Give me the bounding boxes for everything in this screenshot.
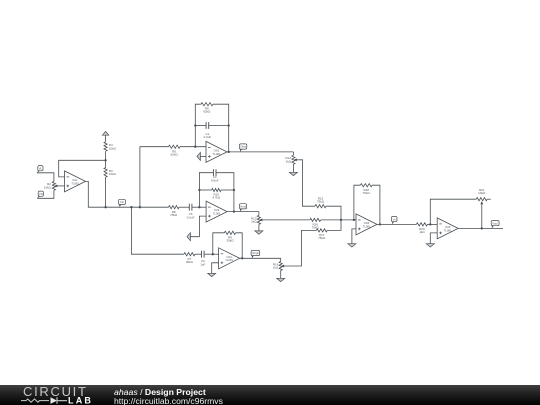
wire R14 wiper to R17	[286, 230, 317, 266]
junction R10 right	[233, 189, 235, 191]
wire R16 to OA5 -	[321, 219, 356, 221]
resistor R9 30k	[224, 231, 235, 234]
resistor R8 75k	[169, 206, 180, 209]
junction R10 left	[198, 189, 200, 191]
wire junction to R3	[105, 160, 107, 167]
wire feedback left stage B	[199, 173, 213, 208]
svg-text:75kΩ: 75kΩ	[318, 236, 326, 240]
node flag Vin	[119, 199, 126, 207]
svg-text:4.7kΩ: 4.7kΩ	[212, 196, 221, 200]
svg-text:1kΩ: 1kΩ	[273, 266, 279, 270]
ground OA4	[208, 273, 216, 276]
svg-text:75kΩ: 75kΩ	[363, 191, 371, 195]
junction feedback tap	[353, 219, 355, 221]
junction R3 on bus	[104, 206, 106, 208]
wire OA1 - feedback loop	[59, 160, 106, 177]
svg-text:1kΩ: 1kΩ	[251, 220, 257, 224]
resistor R15 75k	[315, 205, 326, 208]
svg-text:0.6uF: 0.6uF	[187, 215, 195, 219]
resistor R20 1k	[416, 223, 427, 226]
wire OA1 out to bus	[86, 181, 169, 207]
svg-text:TL081: TL081	[363, 224, 371, 228]
wire R17 to sum node	[327, 220, 341, 231]
junction OA3 out	[233, 210, 235, 212]
wire OA5 + to ground	[352, 229, 356, 244]
capacitor C2 1uF	[202, 251, 205, 258]
svg-text:10kΩ: 10kΩ	[109, 146, 117, 150]
capacitor C5 0.6uF	[189, 204, 192, 211]
junction OA4 input node	[212, 253, 214, 255]
node flag VL	[37, 166, 43, 173]
junction OA6 out feedback	[481, 227, 483, 229]
ground R12	[289, 172, 297, 175]
wire R4 to junction	[105, 151, 107, 160]
wire R7 to C2	[195, 253, 202, 255]
supply V+ arrow	[102, 131, 108, 135]
wire R15 to sum node	[326, 206, 341, 220]
node flag Vmid	[239, 204, 246, 212]
svg-text:Vhigh: Vhigh	[252, 251, 260, 255]
svg-text:62kΩ: 62kΩ	[171, 153, 179, 157]
wire VL to R2 top	[37, 173, 54, 182]
wire R14 to ground	[280, 271, 282, 279]
wire OA4 + to ground	[212, 263, 219, 274]
wire to R14 top	[280, 258, 282, 261]
wire C4 to OA3 out	[216, 173, 234, 212]
op-amp OA6 output	[437, 218, 458, 239]
wire R20 to OA6 -	[428, 223, 438, 225]
resistor R3 10k	[104, 168, 107, 178]
ground OA2	[197, 152, 200, 160]
op-amp OA5 summing	[356, 214, 377, 235]
junction R4/R3/OA1-	[104, 159, 106, 161]
svg-text:TL081: TL081	[71, 181, 79, 185]
wire OA6 output	[458, 227, 503, 229]
junction OA5 out	[379, 223, 381, 225]
wire R3 to bus	[105, 177, 107, 207]
svg-text:0.2uF: 0.2uF	[204, 135, 212, 139]
wire C2 to OA4 -	[204, 253, 219, 255]
wire OA4 output	[240, 257, 281, 259]
wire OA3 output	[227, 211, 259, 213]
capacitor C4 0.8uF	[213, 169, 216, 176]
resistor R4 10k	[104, 142, 107, 151]
wire supply to R4	[105, 135, 107, 142]
junction OA4 out	[241, 257, 243, 259]
wire bus down to R7	[131, 207, 184, 254]
wire R18 to OA5 out	[372, 185, 380, 224]
junction OA6 input node	[429, 223, 431, 225]
svg-text:Vout: Vout	[492, 221, 498, 225]
wire R9 to OA4 out	[236, 233, 243, 258]
wire R12 wiper to R15	[298, 160, 315, 206]
wire R13 wiper to R16	[264, 219, 310, 221]
node flag Vout	[491, 221, 499, 229]
wire OA3 + to ground	[190, 216, 206, 237]
resistor R10 4.7k	[212, 188, 221, 191]
resistor R16 75k	[310, 218, 321, 221]
svg-text:VL: VL	[39, 166, 43, 170]
wire OA2 + to ground	[200, 155, 206, 157]
junction OA2 out	[228, 151, 230, 153]
svg-text:62kΩ: 62kΩ	[203, 110, 211, 114]
op-amp OA2 low-pass	[206, 141, 227, 162]
potentiometer R12 1k	[292, 155, 295, 164]
svg-text:30kΩ: 30kΩ	[186, 260, 194, 264]
potentiometer R2 10k	[52, 182, 55, 191]
wire VR to R2 bottom	[37, 190, 54, 198]
wire R2 wiper to OA1 +	[59, 185, 65, 187]
op-amp OA3 band-pass	[206, 201, 227, 222]
wire to R10	[199, 189, 211, 191]
junction OA3 input node	[198, 206, 200, 208]
wire R13 to ground	[258, 224, 260, 231]
junction bus to low branch	[130, 206, 132, 208]
CircuitLab logo	[0, 385, 112, 405]
wire C1 right lead	[209, 125, 229, 127]
svg-text:TL081: TL081	[225, 258, 233, 262]
svg-text:TL081: TL081	[444, 228, 452, 232]
wire C5 to OA3 -	[192, 206, 206, 208]
wire to R13 top	[258, 212, 260, 216]
junction summing node	[340, 219, 342, 221]
svg-text:LAB: LAB	[68, 395, 93, 405]
node flag VR	[37, 191, 43, 198]
wire feedback left up	[195, 104, 201, 147]
wire OA2 output	[227, 151, 293, 153]
wire to R12 top	[292, 152, 294, 155]
resistor R5 62k	[169, 145, 181, 148]
capacitor C1 0.2uF	[206, 122, 209, 129]
svg-text:1uF: 1uF	[200, 262, 205, 266]
junction C1 right	[228, 124, 230, 126]
wire R6 to OA2 out	[213, 104, 229, 152]
op-amp OA4 high-pass	[219, 248, 240, 269]
wire bus up to R5	[140, 147, 169, 208]
svg-text:Vlow: Vlow	[240, 145, 247, 149]
svg-text:75kΩ: 75kΩ	[170, 213, 178, 217]
ground OA5	[348, 244, 356, 247]
svg-text:10kΩ: 10kΩ	[44, 185, 52, 189]
wire R21 right stub	[487, 198, 491, 200]
wire R5 to OA2 -	[180, 146, 206, 148]
svg-text:75kΩ: 75kΩ	[312, 226, 320, 230]
svg-text:1kΩ: 1kΩ	[286, 159, 292, 163]
svg-text:Vin: Vin	[120, 200, 124, 204]
svg-text:TL081: TL081	[213, 152, 221, 156]
ground OA6	[426, 244, 434, 247]
wire OA6 + to ground	[430, 233, 437, 244]
svg-text:10kΩ: 10kΩ	[109, 172, 117, 176]
svg-text:Vmid: Vmid	[240, 205, 247, 209]
ground OA3	[187, 233, 190, 241]
wire OA5 output to R20	[377, 223, 416, 225]
wire feedback up to R18	[354, 185, 361, 220]
wire R12 to ground	[292, 164, 294, 172]
svg-text:0.8uF: 0.8uF	[211, 178, 219, 182]
svg-text:TL081: TL081	[213, 212, 221, 216]
junction bus to high branch	[139, 206, 141, 208]
ground R13	[255, 231, 263, 234]
svg-text:10kΩ: 10kΩ	[478, 191, 486, 195]
wire R10 right	[221, 189, 234, 191]
wire feedback left stage C	[213, 233, 225, 254]
potentiometer R13 1k	[257, 215, 260, 224]
resistor R18 75k	[360, 184, 372, 187]
svg-text:30kΩ: 30kΩ	[226, 239, 234, 243]
svg-text:75kΩ: 75kΩ	[317, 200, 325, 204]
wire R8 to C5	[179, 206, 189, 208]
junction C1 left	[194, 124, 196, 126]
node flag Vs	[391, 217, 397, 225]
op-amp OA1	[65, 171, 86, 192]
svg-text:1kΩ: 1kΩ	[419, 230, 425, 234]
resistor R17 75k	[316, 229, 327, 232]
wire feedback up to R21	[430, 199, 476, 224]
node flag Vlow	[239, 144, 247, 152]
node flag Vhigh	[251, 250, 260, 258]
junction OA2 input node	[194, 146, 196, 148]
ground R14	[277, 278, 285, 281]
potentiometer R21 10k	[476, 198, 487, 201]
svg-text:VR: VR	[39, 192, 43, 196]
resistor R6 62k	[201, 103, 213, 106]
potentiometer R14 1k	[279, 262, 282, 271]
wire C1 left lead	[195, 125, 206, 127]
resistor R7 30k	[184, 253, 195, 256]
